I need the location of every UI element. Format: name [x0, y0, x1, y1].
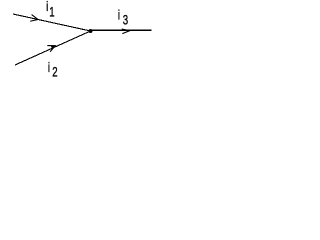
svg-text:1: 1: [49, 5, 54, 20]
svg-text:2: 2: [52, 65, 57, 80]
svg-text:i: i: [48, 61, 50, 76]
arrowhead on wire i1: [30, 15, 38, 22]
svg-text:i: i: [46, 0, 48, 15]
wire i1 (from upper-left into junction): [13, 14, 91, 31]
arrowhead on wire i3: [122, 29, 130, 33]
wire i3 (from junction to the right): [91, 29, 152, 31]
arrowhead tip fill on wire i2: [51, 46, 56, 49]
junction node (filled dot): [89, 29, 93, 33]
arrowhead on wire i2: [47, 46, 55, 52]
svg-text:3: 3: [123, 13, 128, 28]
wire i2 (from lower-left into junction): [15, 31, 91, 65]
svg-text:i: i: [118, 8, 120, 23]
